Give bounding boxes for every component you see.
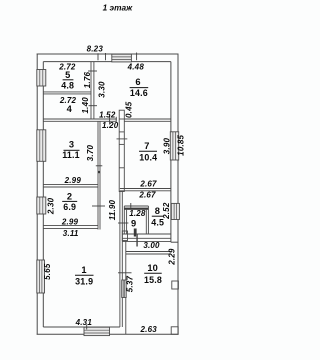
tick below dark stub — [136, 237, 138, 247]
room 10 walls — [122, 231, 178, 334]
dim tick corridor opening — [109, 117, 111, 125]
svg-text:6: 6 — [135, 77, 140, 87]
rotated dims — [43, 71, 185, 292]
svg-text:8.23: 8.23 — [87, 45, 104, 54]
long wall room1|9,10 — [119, 191, 121, 327]
svg-text:7: 7 — [144, 141, 149, 151]
svg-text:2.67: 2.67 — [138, 191, 156, 200]
svg-text:2.99: 2.99 — [61, 218, 79, 227]
dark stub left of room9 bottom — [134, 229, 137, 237]
svg-text:2.67: 2.67 — [139, 180, 157, 189]
window top room6 — [112, 54, 132, 62]
outer wall right outer — [177, 54, 179, 335]
dim tick top wall c — [136, 53, 138, 61]
window room2 left — [37, 197, 46, 214]
svg-text:2.99: 2.99 — [64, 176, 82, 185]
svg-text:4.31: 4.31 — [75, 318, 93, 327]
svg-text:5.65: 5.65 — [43, 263, 52, 280]
svg-text:1 этаж: 1 этаж — [103, 3, 133, 13]
window room10 left — [122, 280, 127, 298]
outer wall top inner — [43, 61, 171, 63]
wall rooms 7|8,9 — [120, 188, 171, 190]
window glazing lines — [39, 57, 176, 333]
outer wall bottom outer — [37, 333, 179, 335]
room10 left wall — [125, 241, 127, 334]
outer wall top outer — [37, 53, 179, 55]
room 9 walls — [122, 206, 171, 238]
dim tick room3 wall — [96, 165, 103, 167]
svg-text:9: 9 — [131, 219, 136, 229]
svg-text:1.40: 1.40 — [81, 97, 90, 114]
wall room6|7 right of chimney — [124, 118, 171, 120]
outer wall bottom inner — [43, 326, 120, 328]
svg-text:14.6: 14.6 — [130, 88, 148, 98]
fraction lines for room labels — [62, 80, 163, 275]
wall rooms 3|2 — [43, 184, 98, 186]
door mark room3 wall — [98, 171, 100, 173]
wall rooms 5|4 — [43, 91, 91, 93]
window right room8 — [171, 203, 179, 219]
dim tick top wall a — [97, 53, 99, 60]
svg-text:8: 8 — [155, 206, 160, 216]
dim tick wall4|3 end — [115, 117, 117, 122]
svg-text:1.76: 1.76 — [83, 71, 92, 88]
wall rooms 3,2|corridor — [97, 121, 99, 229]
dim tick bottom window end — [86, 325, 88, 330]
windows: striped boxes — [37, 54, 180, 335]
svg-text:2.30: 2.30 — [46, 197, 55, 215]
window right room7 — [170, 132, 178, 160]
svg-text:4.8: 4.8 — [61, 81, 74, 91]
dim tick room10 3.00 — [136, 234, 138, 247]
svg-text:10.85: 10.85 — [177, 134, 186, 155]
dim tick top wall b — [105, 53, 107, 60]
svg-text:4: 4 — [67, 104, 73, 114]
svg-text:31.9: 31.9 — [75, 276, 93, 286]
wall rooms 2|1 — [43, 225, 98, 227]
window room5 left — [37, 70, 46, 87]
svg-text:3.70: 3.70 — [86, 144, 95, 161]
window bottom room1 — [84, 327, 110, 335]
room labels horizontal — [58, 45, 164, 335]
dim tick wall rooms5,4|6 lower — [89, 105, 98, 107]
wall rooms 5,4|6 — [90, 62, 92, 119]
svg-text:1.20: 1.20 — [102, 121, 119, 130]
svg-text:1: 1 — [81, 265, 86, 275]
room 9 dark top band — [124, 208, 148, 210]
svg-text:2: 2 — [67, 192, 72, 202]
svg-text:11.1: 11.1 — [62, 150, 80, 160]
piers bottom right — [172, 281, 179, 289]
dim tick long wall 11.90 — [118, 222, 128, 224]
svg-text:5: 5 — [65, 70, 70, 80]
svg-text:3.90: 3.90 — [162, 137, 171, 154]
window room1 left — [37, 260, 45, 293]
svg-text:3.00: 3.00 — [143, 241, 160, 250]
svg-text:10: 10 — [147, 263, 157, 273]
wall rooms 4|3 and corridor top — [43, 118, 117, 120]
outer wall left outer — [36, 54, 38, 335]
outer wall left inner — [42, 62, 44, 327]
svg-text:3: 3 — [69, 140, 74, 150]
svg-text:4.48: 4.48 — [127, 62, 145, 71]
svg-text:3.30: 3.30 — [98, 81, 107, 98]
ledge line under room9 — [123, 240, 171, 242]
outer wall right inner — [170, 62, 172, 243]
svg-text:2.29: 2.29 — [168, 248, 177, 266]
chimney 2 — [122, 231, 127, 241]
dim tick wall rooms5,4|6 upper — [88, 70, 97, 72]
svg-text:2.52: 2.52 — [162, 202, 171, 220]
svg-text:3.11: 3.11 — [63, 229, 79, 238]
dim tick room10 left wall — [118, 272, 132, 274]
svg-text:0.45: 0.45 — [125, 101, 134, 118]
svg-text:2.63: 2.63 — [140, 325, 158, 334]
svg-text:1.52: 1.52 — [99, 110, 116, 119]
dim tick room2 wall — [92, 205, 105, 207]
dim tick room9 1.28 — [130, 203, 132, 208]
svg-text:11.90: 11.90 — [108, 199, 117, 220]
svg-text:15.8: 15.8 — [144, 275, 162, 285]
window room3 left — [37, 130, 46, 162]
room10 top wall — [126, 251, 171, 253]
svg-text:1.28: 1.28 — [129, 209, 146, 218]
svg-text:10.4: 10.4 — [139, 152, 157, 162]
svg-text:5.37: 5.37 — [126, 275, 135, 292]
svg-text:6.9: 6.9 — [63, 202, 76, 212]
wall jog right — [171, 241, 178, 243]
chimney block — [117, 110, 128, 191]
